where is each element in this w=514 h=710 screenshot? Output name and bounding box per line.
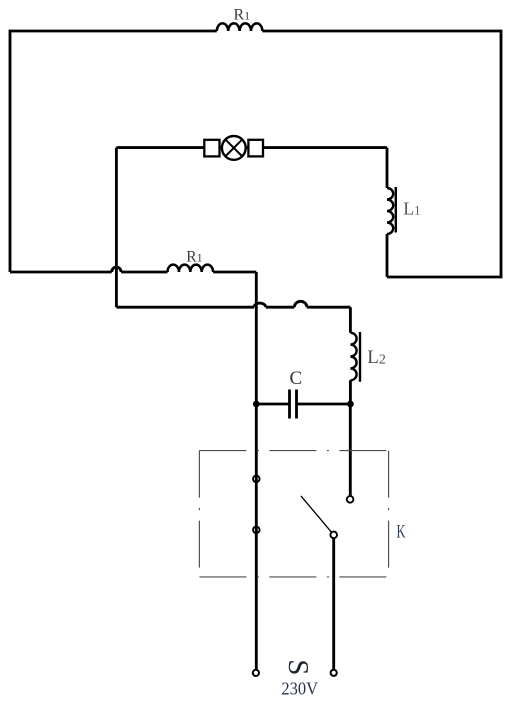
lamp left terminal square: [204, 140, 219, 157]
wire lower horizontal left part: [116, 306, 254, 309]
terminal circle bottom right: [331, 670, 337, 676]
switch K blade: [301, 496, 332, 533]
svg-text:S: S: [282, 659, 314, 675]
wire top-right segment, right side, bottom of right loop: [262, 31, 501, 277]
wire capacitor right lead: [297, 403, 351, 406]
wire capacitor left lead: [256, 403, 289, 406]
wire L2 top lead: [349, 307, 352, 333]
wire middle vertical long: [255, 272, 258, 670]
wire between hop and middle R1 coil: [121, 271, 167, 274]
resistor R1 coil (middle): [168, 265, 214, 272]
wire lower horizontal middle: [266, 306, 295, 309]
svg-text:L2: L2: [367, 347, 386, 368]
wire hop over vertical at x256: [254, 303, 266, 307]
wire middle horizontal left part: [10, 271, 112, 274]
wire outer left and top-left segment: [10, 31, 217, 272]
wire inner top (lamp branch): [116, 146, 387, 149]
connector circle upper on left wire: [253, 476, 260, 483]
connector circle lower on left wire: [253, 527, 260, 534]
wire lower horizontal right: [307, 306, 351, 309]
inductor L1 coil: [387, 188, 393, 234]
switch K fixed contact circle: [347, 496, 354, 503]
capacitor C plates: [290, 390, 297, 419]
terminal circle bottom left: [253, 670, 259, 676]
svg-text:C: C: [290, 368, 303, 389]
lamp circle with X: [222, 136, 246, 160]
svg-text:R1: R1: [186, 248, 202, 265]
svg-text:230V: 230V: [281, 679, 318, 699]
wire L2 bottom lead: [349, 380, 352, 404]
inductor L2 core bar: [359, 332, 361, 382]
resistor R1 coil (top): [217, 23, 263, 31]
svg-text:R1: R1: [234, 6, 251, 23]
wire single hump: [294, 301, 307, 307]
inductor L2 coil: [350, 333, 356, 381]
enclosure K dashed box: [199, 451, 388, 577]
inductor L1 core bar: [395, 187, 397, 233]
wire switch lower lead: [332, 538, 335, 670]
lamp right terminal square: [248, 140, 263, 157]
junction dot at capacitor right node: [347, 401, 354, 408]
wire hop over vertical at x116: [112, 267, 121, 272]
wire middle R1 to corner: [213, 271, 256, 274]
switch K pivot circle: [330, 532, 337, 539]
svg-text:K: K: [397, 522, 406, 542]
wire L1 bottom lead: [386, 234, 389, 277]
junction dot at capacitor left node: [253, 401, 260, 408]
wire L1 top lead: [386, 148, 389, 188]
wire inner left vertical: [115, 148, 118, 308]
wire L2 node down to switch contact: [349, 404, 352, 496]
svg-text:L1: L1: [403, 198, 420, 218]
